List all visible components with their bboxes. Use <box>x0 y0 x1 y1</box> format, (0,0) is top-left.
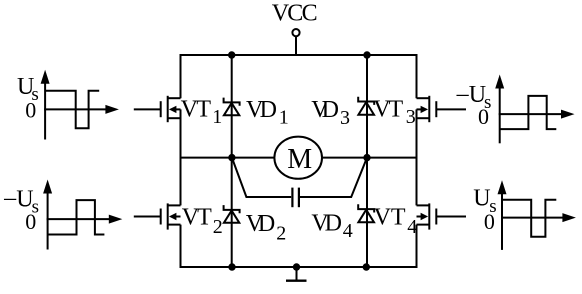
svg-text:VCC: VCC <box>272 1 318 27</box>
svg-text:M: M <box>287 144 312 175</box>
svg-text:3: 3 <box>406 106 416 128</box>
svg-text:0: 0 <box>25 98 36 123</box>
svg-text:3: 3 <box>340 107 350 129</box>
svg-text:U: U <box>473 185 490 211</box>
svg-text:0: 0 <box>478 104 489 129</box>
svg-text:VD: VD <box>311 211 342 237</box>
svg-text:1: 1 <box>279 106 289 128</box>
svg-text:4: 4 <box>343 220 353 242</box>
svg-text:0: 0 <box>484 209 495 234</box>
svg-text:VT: VT <box>181 97 212 123</box>
svg-text:2: 2 <box>276 223 286 245</box>
svg-text:4: 4 <box>407 216 417 238</box>
svg-text:2: 2 <box>213 216 223 238</box>
svg-text:–: – <box>3 185 17 211</box>
svg-text:–: – <box>456 81 470 107</box>
svg-text:VD: VD <box>246 97 277 123</box>
svg-text:VT: VT <box>374 205 406 231</box>
svg-text:VT: VT <box>182 205 212 231</box>
svg-text:1: 1 <box>212 106 222 128</box>
svg-text:VT: VT <box>373 96 403 122</box>
svg-text:VD: VD <box>311 97 339 123</box>
svg-text:VD: VD <box>246 211 275 237</box>
svg-text:0: 0 <box>25 209 36 234</box>
